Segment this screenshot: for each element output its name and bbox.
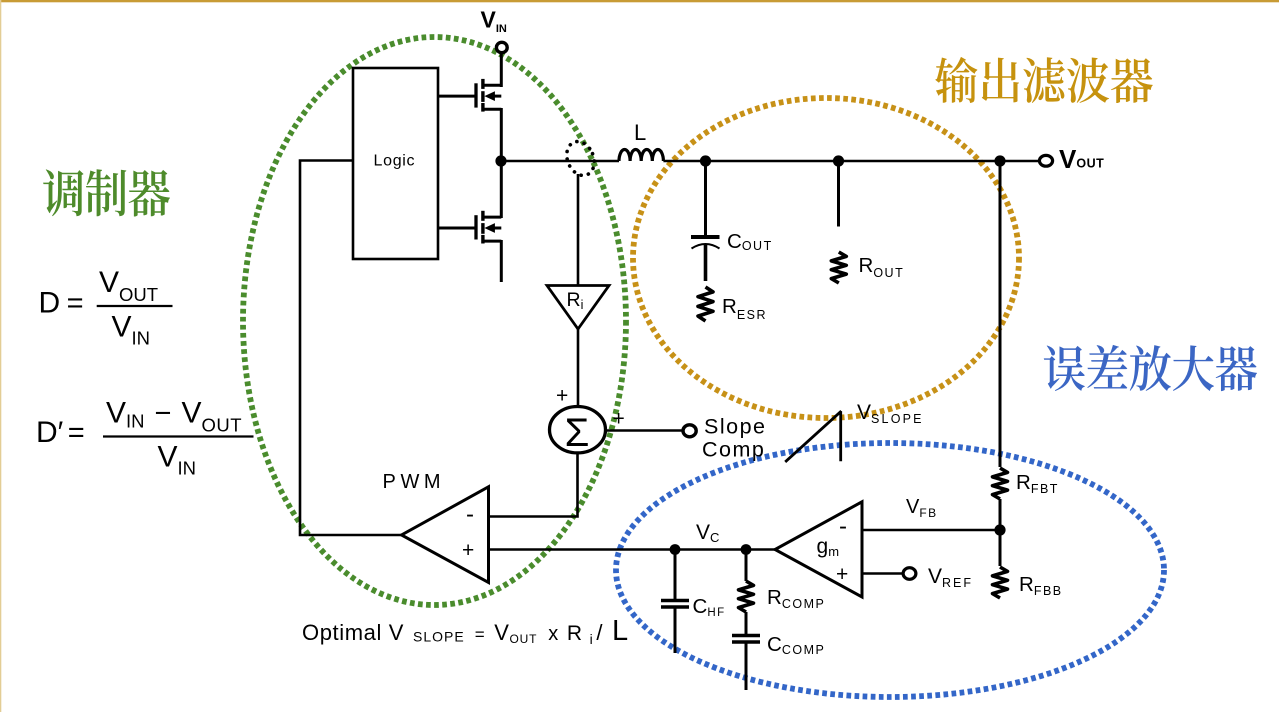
wire Rcomp to Ccomp — [745, 612, 748, 634]
formula Dprime = (Vin-Vout)/Vin — [36, 396, 254, 478]
wire rail to Rout — [837, 161, 840, 227]
node Vfb junction dot — [994, 524, 1005, 535]
wire Rfbt to Vfb node — [999, 499, 1002, 566]
logic block — [353, 68, 438, 259]
switch node junction dot — [495, 155, 506, 166]
wire switch node to inductor — [501, 160, 619, 163]
svg-text:Logic: Logic — [374, 153, 416, 170]
node: Cout junction dot — [700, 155, 711, 166]
capacitor Cout (polarized) — [691, 235, 720, 239]
Vout terminal circle — [1039, 155, 1052, 166]
svg-text:+: + — [556, 385, 568, 408]
svg-text:+: + — [836, 563, 848, 586]
Vref terminal circle — [903, 568, 916, 580]
wire inductor to Vout terminal — [663, 160, 1038, 163]
node Vc junction dot 1 — [670, 544, 681, 555]
title: modulator (调制器) — [43, 169, 170, 216]
output filter region dotted ellipse (orange) — [633, 98, 1019, 418]
Vslope ramp waveform — [785, 411, 841, 462]
resistor Rout — [831, 252, 846, 283]
svg-text:+: + — [462, 539, 474, 562]
transistor M1 (high-side MOSFET) — [438, 79, 501, 112]
wire Cout to Resr — [704, 244, 708, 281]
wire Ri to summer — [577, 329, 580, 408]
resistor Rcomp — [739, 581, 754, 612]
title: error amplifier (误差放大器) — [1044, 345, 1257, 391]
error amplifier gm — [775, 502, 862, 597]
wire below Ccomp — [745, 643, 748, 691]
Vin terminal circle — [496, 42, 507, 52]
formula D = Vout/Vin — [39, 266, 173, 349]
wire Vin to M1 drain — [500, 53, 503, 87]
label Slope Comp — [702, 415, 767, 462]
transistor M2 (low-side MOSFET) — [438, 211, 501, 244]
svg-text:-: - — [466, 501, 474, 528]
node: feedback junction dot — [994, 155, 1005, 166]
wire summer to slope comp terminal — [606, 429, 683, 432]
top gold border — [0, 0, 1279, 2]
wire Vout rail down to Rfbt — [999, 161, 1002, 467]
svg-text:L: L — [634, 120, 646, 145]
resistor Resr — [698, 287, 713, 321]
slope comp terminal circle — [683, 425, 696, 437]
svg-text:PWM: PWM — [383, 471, 446, 493]
svg-text:+: + — [613, 408, 625, 431]
resistor Rfbt — [993, 468, 1008, 499]
wire gm minus input to Vfb node — [862, 529, 1000, 532]
wire rail to Cout — [704, 161, 707, 236]
inductor L — [619, 150, 663, 162]
wire M1 source to switch node to M2 drain — [500, 108, 503, 218]
svg-text:Comp: Comp — [702, 438, 765, 462]
svg-text:-: - — [839, 513, 847, 540]
modulator region dotted ellipse (green) — [243, 37, 626, 605]
wire sense point to Ri — [577, 174, 580, 285]
summing junction sigma — [550, 407, 606, 456]
capacitor Ccomp — [732, 634, 760, 638]
wire PWM output feedback to logic — [300, 161, 402, 536]
wire gm plus input to Vref terminal — [862, 572, 903, 575]
svg-text:Σ: Σ — [565, 411, 590, 455]
wire below Chf — [674, 608, 677, 654]
wire M2 source stub — [500, 240, 503, 282]
error amplifier region dotted ellipse (blue) — [616, 443, 1164, 697]
comparator PWM — [402, 487, 489, 583]
node: Rout junction dot — [833, 155, 844, 166]
wire PWM plus input from Vc — [489, 548, 776, 551]
title: output filter (输出滤波器) — [935, 57, 1153, 103]
resistor Rfbb — [993, 567, 1008, 598]
amplifier Ri — [547, 286, 609, 330]
svg-text:Slope: Slope — [704, 415, 767, 439]
current sense dotted circle — [562, 137, 599, 179]
wire Vc to Chf — [674, 550, 677, 600]
left gold border — [0, 0, 1, 712]
node Vc junction dot 2 — [741, 544, 752, 555]
wire summer to PWM minus input — [489, 453, 578, 517]
capacitor Chf — [661, 599, 689, 603]
wire Vc to Rcomp — [745, 550, 748, 582]
svg-text:D′=: D′= — [36, 416, 85, 449]
